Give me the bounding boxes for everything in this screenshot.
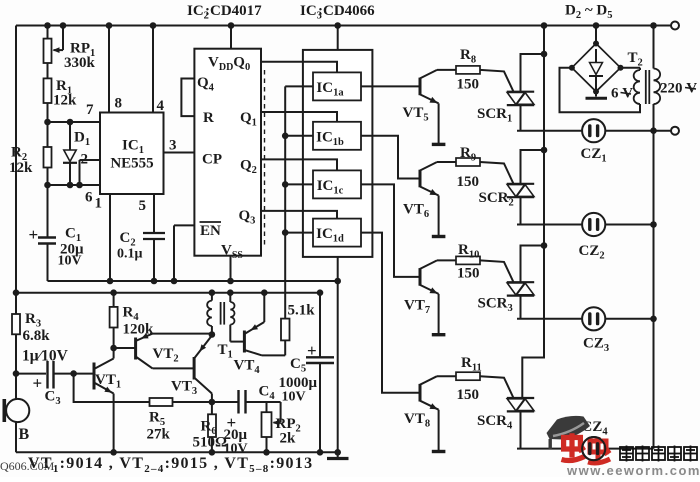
svg-text:330k: 330k bbox=[64, 55, 96, 71]
svg-text::CD4017: :CD4017 bbox=[205, 3, 262, 19]
svg-text:510Ω: 510Ω bbox=[193, 435, 228, 451]
svg-text:5: 5 bbox=[139, 198, 147, 214]
svg-text:B: B bbox=[19, 426, 30, 443]
svg-text:2: 2 bbox=[81, 152, 89, 168]
svg-text:1μ∕10V: 1μ∕10V bbox=[22, 348, 69, 365]
svg-text::CD4066: :CD4066 bbox=[318, 3, 375, 19]
svg-text:SCR3: SCR3 bbox=[478, 296, 513, 315]
svg-text:0.1μ: 0.1μ bbox=[117, 247, 143, 262]
svg-text:1: 1 bbox=[95, 196, 103, 212]
svg-text:EN: EN bbox=[200, 223, 221, 239]
svg-text:SCR2: SCR2 bbox=[479, 190, 514, 209]
svg-text:150: 150 bbox=[457, 174, 480, 190]
svg-text:CP: CP bbox=[202, 152, 222, 168]
svg-text:+: + bbox=[33, 374, 43, 393]
svg-text:SCR1: SCR1 bbox=[477, 106, 512, 125]
svg-text:5.1k: 5.1k bbox=[288, 303, 316, 319]
svg-text:12k: 12k bbox=[9, 160, 33, 176]
svg-text:150: 150 bbox=[457, 77, 480, 93]
svg-text:7: 7 bbox=[86, 102, 94, 118]
svg-text:150: 150 bbox=[457, 387, 480, 403]
svg-text:8: 8 bbox=[115, 96, 123, 112]
svg-text:2k: 2k bbox=[280, 431, 297, 447]
svg-text:4: 4 bbox=[157, 98, 165, 114]
svg-text:Q606.C0M: Q606.C0M bbox=[0, 459, 55, 473]
svg-text:10V: 10V bbox=[58, 254, 82, 269]
svg-text:27k: 27k bbox=[147, 427, 171, 443]
svg-text:10V: 10V bbox=[282, 390, 306, 405]
svg-text:6.8k: 6.8k bbox=[23, 328, 51, 344]
svg-text:12k: 12k bbox=[53, 93, 77, 109]
svg-text:R: R bbox=[203, 110, 214, 126]
svg-text:NE555: NE555 bbox=[110, 156, 153, 172]
svg-text:120k: 120k bbox=[123, 322, 155, 338]
svg-text:+: + bbox=[29, 225, 39, 244]
svg-text:www.eeworm.com: www.eeworm.com bbox=[566, 463, 700, 477]
svg-text:D2 ~ D5: D2 ~ D5 bbox=[565, 3, 612, 22]
svg-text:+: + bbox=[307, 341, 317, 360]
svg-text:3: 3 bbox=[169, 138, 177, 154]
svg-text:150: 150 bbox=[457, 266, 480, 282]
svg-text:6: 6 bbox=[85, 190, 93, 206]
